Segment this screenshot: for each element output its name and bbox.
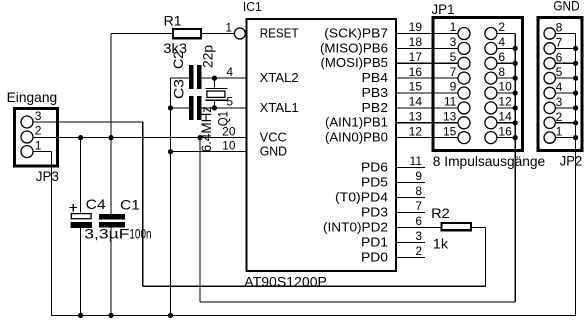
svg-text:11: 11 — [444, 95, 457, 109]
svg-text:C1: C1 — [120, 197, 140, 213]
svg-text:IC1: IC1 — [243, 0, 262, 14]
svg-text:(AIN1)PB1: (AIN1)PB1 — [325, 116, 388, 130]
junction VCC/C4 — [78, 135, 83, 140]
wire PB3 to JP1 — [396, 92, 458, 94]
svg-text:PD6: PD6 — [361, 160, 388, 174]
wire PD stub pin 2 — [396, 257, 425, 259]
svg-text:JP1: JP1 — [432, 1, 455, 17]
capacitor C4 plus sign — [70, 207, 78, 209]
svg-text:(T0)PD4: (T0)PD4 — [335, 190, 388, 204]
svg-text:10: 10 — [222, 138, 236, 152]
junction JP1 pin 16 — [513, 135, 518, 140]
junction JP1 pin 4 — [513, 46, 518, 51]
junction JP2 pin 3 — [573, 105, 578, 110]
svg-text:(SCK)PB7: (SCK)PB7 — [324, 26, 388, 40]
svg-text:1: 1 — [225, 21, 232, 35]
IC IC1 AT90S1200P body — [246, 19, 396, 271]
JP1 pin 10 — [485, 87, 497, 99]
svg-text:15: 15 — [443, 124, 457, 138]
svg-text:9: 9 — [415, 169, 422, 183]
svg-text:PB2: PB2 — [362, 101, 389, 115]
wire R1 left — [111, 33, 173, 35]
wire JP2 pin 6 stub — [555, 62, 575, 64]
svg-text:1: 1 — [450, 20, 457, 34]
wire R2 net right vertical — [484, 228, 486, 287]
JP1 pin 6 — [485, 57, 497, 69]
JP2 pin 1 — [544, 132, 555, 143]
JP1 pin 15 — [458, 132, 470, 144]
svg-text:8: 8 — [556, 21, 563, 35]
junction JP1 pin 14 — [513, 120, 518, 125]
svg-text:3: 3 — [415, 229, 422, 243]
svg-text:(MOSI)PB5: (MOSI)PB5 — [321, 56, 389, 70]
svg-text:PB4: PB4 — [362, 71, 389, 85]
svg-text:3: 3 — [35, 109, 42, 123]
svg-text:4: 4 — [556, 80, 563, 94]
junction JP1 pin 8 — [513, 76, 518, 81]
svg-text:4: 4 — [498, 35, 505, 49]
svg-text:8 Impulsausgänge: 8 Impulsausgänge — [433, 153, 546, 169]
wire JP1 pin 4 stub — [497, 47, 516, 49]
svg-text:2: 2 — [556, 110, 563, 124]
svg-text:PB3: PB3 — [362, 86, 389, 100]
wire PD stub pin 7 — [396, 212, 425, 214]
svg-text:RESET: RESET — [260, 26, 299, 40]
svg-text:VCC: VCC — [260, 131, 287, 145]
svg-text:8: 8 — [498, 65, 505, 79]
svg-text:XTAL2: XTAL2 — [260, 71, 299, 85]
wire RESET net left vertical (R1 to VCC rail) — [110, 34, 112, 138]
svg-text:(INT0)PD2: (INT0)PD2 — [323, 220, 388, 234]
svg-text:13: 13 — [409, 110, 423, 124]
svg-text:19: 19 — [409, 20, 423, 34]
junction VCC/drop — [197, 135, 202, 140]
wire PD stub pin 11 — [396, 167, 425, 169]
wire PD stub pin 3 — [396, 242, 425, 244]
junction JP1 pin 12 — [513, 105, 518, 110]
svg-text:4: 4 — [226, 65, 233, 79]
svg-text:7: 7 — [415, 199, 422, 213]
JP1 pin 1 — [458, 28, 470, 40]
wire VCC from JP3 pin2 to IC pin 20 — [33, 137, 246, 139]
wire JP1 pin 12 stub — [497, 107, 516, 109]
wire XTAL2 right of C2 to pin 4 — [202, 77, 247, 79]
capacitor C4 lead bottom — [80, 228, 82, 315]
svg-text:6: 6 — [556, 50, 563, 64]
capacitor C4 lead top — [80, 138, 82, 213]
junction crystal bottom — [212, 105, 217, 110]
svg-text:Q1: Q1 — [215, 111, 231, 126]
wire XTAL1 right of C3 to pin 5 — [202, 107, 247, 109]
wire JP1 even-pins vertical — [514, 34, 516, 303]
wire JP2 pin 5 stub — [555, 77, 575, 79]
wire PB4 to JP1 — [396, 77, 458, 79]
wire PD stub pin 9 — [396, 182, 425, 184]
svg-text:2: 2 — [415, 244, 422, 258]
capacitor C1 — [99, 214, 125, 219]
junction JP1 pin 6 — [513, 61, 518, 66]
svg-text:3: 3 — [556, 95, 563, 109]
svg-text:11: 11 — [410, 154, 423, 168]
wire XTAL1 left of C3 — [171, 107, 190, 109]
svg-text:12: 12 — [498, 95, 512, 109]
JP1 pin 13 — [458, 117, 470, 129]
wire JP2 pin 3 stub — [555, 107, 575, 109]
svg-text:10: 10 — [498, 80, 512, 94]
JP1 pin 11 — [458, 102, 470, 114]
wire XTAL2 left of C2 — [171, 77, 190, 79]
svg-text:3: 3 — [450, 35, 457, 49]
svg-text:R2: R2 — [431, 205, 450, 221]
JP1 pin 4 — [485, 42, 497, 54]
wire PB5 to JP1 — [396, 62, 458, 64]
wire R2 right — [471, 227, 486, 229]
svg-text:1: 1 — [556, 125, 563, 139]
svg-text:GND: GND — [260, 145, 287, 159]
svg-text:8: 8 — [415, 184, 422, 198]
svg-text:XTAL1: XTAL1 — [260, 101, 299, 115]
capacitor C1 lead top — [110, 138, 112, 215]
resistor R2 — [442, 223, 471, 230]
svg-text:R1: R1 — [164, 12, 182, 28]
wire JP3 pin1 to GND — [33, 151, 52, 153]
wire VCC drop down — [199, 138, 201, 302]
svg-text:22p: 22p — [200, 45, 216, 68]
JP1 pin 5 — [458, 57, 470, 69]
connector JP3 box — [15, 109, 58, 167]
svg-text:C2: C2 — [170, 51, 186, 69]
svg-text:5: 5 — [556, 65, 563, 79]
wire JP2 GND vertical — [575, 34, 577, 316]
svg-text:15: 15 — [409, 80, 423, 94]
JP1 pin 14 — [485, 117, 497, 129]
JP1 pin 16 — [485, 132, 497, 144]
svg-text:JP3: JP3 — [36, 168, 59, 184]
junction JP2 pin 6 — [573, 61, 578, 66]
capacitor C4 — [71, 214, 91, 219]
svg-text:PD3: PD3 — [361, 205, 388, 219]
svg-text:12: 12 — [409, 124, 423, 138]
JP1 pin 2 — [485, 28, 497, 40]
wire JP1 pin 8 stub — [497, 77, 516, 79]
JP3 pin 2 — [21, 131, 33, 143]
svg-text:5: 5 — [226, 95, 233, 109]
wire GND rail vertical — [170, 78, 172, 315]
JP2 pin 5 — [544, 72, 555, 83]
JP3 pin 1 — [21, 146, 33, 158]
junction GND/C1 — [108, 313, 113, 318]
JP1 pin 12 — [485, 102, 497, 114]
junction rail/XTAL1 — [168, 105, 173, 110]
wire VCC bottom horizontal — [200, 301, 515, 303]
JP2 pin 2 — [544, 117, 555, 128]
svg-text:2: 2 — [35, 124, 42, 138]
svg-text:C3: C3 — [170, 79, 186, 99]
capacitor C2 — [189, 65, 193, 89]
svg-text:14: 14 — [409, 95, 423, 109]
svg-text:13: 13 — [443, 110, 457, 124]
wire JP1 pin 10 stub — [497, 92, 516, 94]
capacitor C1 lead bottom — [110, 227, 112, 315]
wire GND pin 10 — [171, 151, 247, 153]
svg-text:(AIN0)PB0: (AIN0)PB0 — [325, 131, 388, 145]
svg-text:C4: C4 — [86, 196, 106, 212]
junction JP1 pin 10 — [513, 90, 518, 95]
svg-text:17: 17 — [409, 50, 423, 64]
svg-text:Eingang: Eingang — [7, 89, 58, 105]
svg-text:6: 6 — [415, 214, 422, 228]
wire JP1 pin 6 stub — [497, 62, 516, 64]
connector JP2 box — [538, 18, 582, 151]
wire R1 right to RESET pin — [201, 33, 235, 35]
JP1 pin 8 — [485, 72, 497, 84]
JP2 pin 6 — [544, 58, 555, 69]
wire JP2 pin 7 stub — [555, 47, 575, 49]
junction JP2 pin 4 — [573, 90, 578, 95]
svg-text:PD5: PD5 — [361, 175, 388, 189]
wire pin 6 to R2 — [396, 227, 442, 229]
wire PB7 to JP1 — [396, 33, 458, 35]
svg-text:PD0: PD0 — [361, 250, 388, 264]
resistor R1 — [173, 29, 201, 38]
svg-text:9: 9 — [450, 80, 457, 94]
capacitor C3 — [189, 96, 193, 120]
svg-text:JP2: JP2 — [560, 153, 583, 169]
wire JP2 pin 1 stub — [555, 137, 575, 139]
wire JP2 pin 8 stub — [555, 33, 575, 35]
wire PB6 to JP1 — [396, 47, 458, 49]
RESET pin inversion circle — [234, 28, 245, 39]
junction VCC/R1-C1 — [108, 135, 113, 140]
connector JP1 box — [433, 18, 523, 151]
svg-text:2: 2 — [498, 20, 505, 34]
svg-text:16: 16 — [409, 65, 423, 79]
wire JP1 pin 14 stub — [497, 122, 516, 124]
svg-text:(MISO)PB6: (MISO)PB6 — [320, 41, 388, 55]
junction JP2 pin 5 — [573, 76, 578, 81]
svg-text:GND: GND — [553, 0, 579, 14]
JP2 pin 4 — [544, 87, 555, 98]
JP1 pin 9 — [458, 87, 470, 99]
wire GND bottom horizontal — [52, 314, 576, 316]
JP2 pin 3 — [544, 102, 555, 113]
wire JP2 pin 4 stub — [555, 92, 575, 94]
svg-text:1k: 1k — [433, 236, 449, 252]
junction JP2 pin 7 — [573, 46, 578, 51]
wire JP2 pin 2 stub — [555, 122, 575, 124]
junction JP2 pin 1 — [573, 135, 578, 140]
JP1 pin 7 — [458, 72, 470, 84]
wire PB1 to JP1 — [396, 122, 458, 124]
svg-text:6: 6 — [498, 50, 505, 64]
svg-text:AT90S1200P: AT90S1200P — [244, 274, 327, 290]
JP1 pin 3 — [458, 42, 470, 54]
junction rail/GND pin — [168, 149, 173, 154]
wire JP1 pin 2 stub — [497, 33, 516, 35]
svg-text:18: 18 — [409, 35, 423, 49]
wire JP3 pin3 to R2 net — [33, 121, 143, 123]
svg-text:7: 7 — [556, 35, 563, 49]
JP3 pin 3 — [21, 116, 33, 128]
wire PB2 to JP1 — [396, 107, 458, 109]
crystal Q1 — [206, 78, 228, 108]
JP2 pin 7 — [544, 43, 555, 54]
wire PD stub pin 8 — [396, 197, 425, 199]
svg-text:3,3µF: 3,3µF — [84, 226, 129, 242]
wire JP1 pin 16 stub — [497, 137, 516, 139]
junction GND/C4 — [78, 313, 83, 318]
svg-text:100n: 100n — [129, 226, 151, 242]
JP2 pin 8 — [544, 28, 555, 39]
wire PB0 to JP1 — [396, 137, 458, 139]
svg-text:5: 5 — [450, 50, 457, 64]
svg-text:16: 16 — [498, 124, 512, 138]
wire R2 net bottom horizontal — [143, 285, 486, 287]
svg-text:PD1: PD1 — [361, 235, 388, 249]
svg-text:14: 14 — [498, 110, 512, 124]
junction crystal top — [212, 76, 217, 81]
svg-text:1: 1 — [35, 138, 42, 152]
junction GND/rail — [168, 313, 173, 318]
junction JP2 pin 2 — [573, 120, 578, 125]
svg-text:7: 7 — [450, 65, 457, 79]
